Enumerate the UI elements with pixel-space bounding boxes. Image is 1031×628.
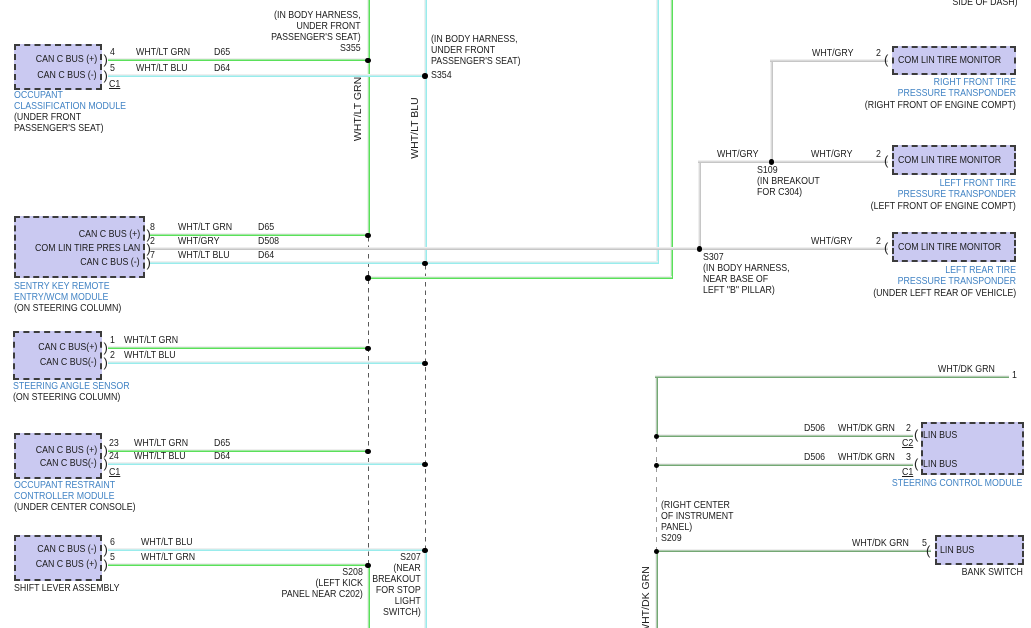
junction CAN+ bus / cross link xyxy=(365,275,371,281)
ORC wire 24 circuit D64 xyxy=(214,451,230,462)
junction LIN bus / SCM pin 3 xyxy=(654,463,660,469)
ORC pin label CAN C BUS(-) xyxy=(40,458,97,469)
SKREEM caption xyxy=(14,281,110,303)
SCM pin label LIN BUS (C2) xyxy=(923,430,957,441)
SKREEM pin 8 number xyxy=(150,222,155,233)
cut-off text SIDE OF DASH xyxy=(953,0,1018,8)
SKREEM wire 8 circuit D65 xyxy=(258,222,274,233)
BANK pin 5 number xyxy=(922,538,927,549)
splice S208 xyxy=(365,563,371,569)
LF wire label WHT/GRY left xyxy=(717,149,758,160)
RF pin label COM LIN TIRE MONITOR xyxy=(898,55,1001,66)
junction CAN+ bus / SKREEM xyxy=(365,233,371,239)
SAS connector symbol pin 2 xyxy=(104,356,108,369)
SAS wire 1 label WHT/LT GRN xyxy=(124,335,178,346)
splice S209 xyxy=(654,549,660,555)
SCM connector C1 label xyxy=(902,467,913,478)
module box left front COM LIN TIRE MONITOR xyxy=(892,145,1016,175)
OCM connector symbol pin 5 xyxy=(104,69,108,82)
top wire pin 1 number xyxy=(1012,370,1017,381)
wire CAN C (-) vertical bus WHT/LT BLU (top solid segment) xyxy=(424,0,427,265)
ORC wire 24 label WHT/LT BLU xyxy=(134,451,186,462)
RF pin 2 number xyxy=(876,48,881,59)
SKREEM wire 2 circuit D508 xyxy=(258,236,279,247)
SKREEM connector symbol pin 7 xyxy=(147,256,151,269)
ORC connector C1 label xyxy=(109,467,120,478)
wire left front transponder pin 2 WHT/GRY xyxy=(698,160,888,163)
SKREEM connector symbol pin 8 xyxy=(147,228,151,241)
LF pin 2 number xyxy=(876,149,881,160)
SCM pin 3 number xyxy=(906,452,911,463)
SCM connector symbol pin 3 xyxy=(914,457,918,470)
wire WHT/LT BLU vertical drop at right xyxy=(656,0,659,264)
OCM connector C1 label xyxy=(109,79,120,90)
RF wire label WHT/GRY xyxy=(812,48,853,59)
wire WHT/GRY vertical S307 to S109 corner xyxy=(698,160,701,250)
wire WHT/LT GRN vertical drop at right xyxy=(670,0,673,279)
wire SCM pin 3 WHT/DK GRN D506 xyxy=(655,463,913,466)
OCM pin 4 number xyxy=(110,47,115,58)
SAS pin 1 number xyxy=(110,335,115,346)
ORC wire 23 label WHT/LT GRN xyxy=(134,438,188,449)
SLA pin 5 number xyxy=(110,552,115,563)
SKREEM wire 7 label WHT/LT BLU xyxy=(178,250,230,261)
wire SAS pin 2 WHT/LT BLU xyxy=(108,361,426,364)
BANK connector symbol pin 5 xyxy=(926,544,930,557)
BANK caption xyxy=(962,567,1023,578)
BANK wire label WHT/DK GRN xyxy=(852,538,909,549)
SAS connector symbol pin 1 xyxy=(104,341,108,354)
RF caption xyxy=(898,77,1016,99)
wire SKREEM pin 7 WHT/LT BLU D64 xyxy=(150,261,658,264)
module box SENTRY KEY REMOTE ENTRY/WCM MODULE xyxy=(14,216,145,278)
SCM wire 3 circuit D506 xyxy=(804,452,825,463)
BANK pin label LIN BUS xyxy=(940,545,974,556)
splice label S307 xyxy=(703,252,790,296)
wire WHT/DK GRN vertical (bottom solid segment) xyxy=(655,551,658,628)
SLA caption xyxy=(14,583,120,594)
ORC connector symbol pin 24 xyxy=(104,457,108,470)
OCM pin label CAN C BUS (-) xyxy=(38,70,97,81)
LF pin label COM LIN TIRE MONITOR xyxy=(898,155,1001,166)
SLA pin 6 number xyxy=(110,537,115,548)
wire SKREEM pin 8 WHT/LT GRN D65 xyxy=(150,233,369,236)
SCM wire 2 label WHT/DK GRN xyxy=(838,423,895,434)
SAS caption xyxy=(13,381,130,392)
vertical wire label WHT/LT GRN xyxy=(352,77,364,141)
wire WHT/DK GRN bus dashed link segment xyxy=(656,437,657,551)
splice label S209 xyxy=(661,500,734,544)
junction CAN+ bus / SAS xyxy=(365,346,371,352)
SCM wire 2 circuit D506 xyxy=(804,423,825,434)
wire SLA pin 5 WHT/LT GRN xyxy=(108,563,369,566)
SKREEM pin label CAN C BUS (+) xyxy=(78,229,140,240)
vertical wire label WHT/DK GRN xyxy=(640,566,652,628)
wire WHT/DK GRN vertical (top solid segment) xyxy=(655,375,658,437)
ORC caption xyxy=(14,480,115,502)
module box right front COM LIN TIRE MONITOR xyxy=(892,46,1016,75)
LR pin label COM LIN TIRE MONITOR xyxy=(898,242,1001,253)
wire CAN C (-) bus bottom solid segment WHT/LT BLU xyxy=(424,550,427,628)
splice label S354 xyxy=(431,34,521,67)
OCM pin 5 number xyxy=(110,63,115,74)
wire CAN C (-) bus dashed link segment xyxy=(425,265,426,550)
wire WHT/GRY vertical S109 to right front corner xyxy=(770,59,773,163)
module box OCCUPANT CLASSIFICATION MODULE xyxy=(14,44,102,90)
SKREEM pin label COM LIN TIRE PRES LAN xyxy=(35,243,140,254)
LF caption xyxy=(898,178,1016,200)
wire CAN C (+) bus dashed link segment xyxy=(368,237,369,565)
module box OCCUPANT RESTRAINT CONTROLLER MODULE xyxy=(14,433,102,479)
splice S207 xyxy=(422,548,428,554)
SKREEM wire 8 label WHT/LT GRN xyxy=(178,222,232,233)
wire right front transponder pin 2 WHT/GRY xyxy=(770,59,888,62)
module box STEERING ANGLE SENSOR xyxy=(13,331,102,380)
ORC wire 23 circuit D65 xyxy=(214,438,230,449)
SAS pin label CAN C BUS(+) xyxy=(38,342,97,353)
wire SCM pin 2 WHT/DK GRN D506 xyxy=(655,434,913,437)
wire CAN C (+) bus bottom solid segment WHT/LT GRN xyxy=(367,565,370,628)
wire OCM pin 5 WHT/LT BLU D64 xyxy=(108,74,426,77)
vertical wire label WHT/LT BLU xyxy=(409,97,421,158)
wire CAN C (+) vertical bus WHT/LT GRN (top solid segment) xyxy=(367,0,370,237)
wire SAS pin 1 WHT/LT GRN xyxy=(108,346,369,349)
SCM connector C2 label xyxy=(902,438,913,449)
OCM pin label CAN C BUS (+) xyxy=(35,54,97,65)
splice label S355 xyxy=(271,10,361,54)
wire WHT/DK GRN top run to pin 1 xyxy=(655,375,1009,378)
SKREEM connector symbol pin 2 xyxy=(147,242,151,255)
splice S307 xyxy=(697,246,703,252)
splice S109 xyxy=(769,159,775,165)
junction CAN- bus / ORC xyxy=(422,462,428,468)
SLA pin label CAN C BUS (-) xyxy=(38,544,97,555)
SKREEM wire 2 label WHT/GRY xyxy=(178,236,219,247)
wire ORC pin 23 WHT/LT GRN D65 xyxy=(108,449,369,452)
wire SLA pin 6 WHT/LT BLU xyxy=(108,548,426,551)
SCM pin label LIN BUS (C1) xyxy=(923,459,957,470)
junction LIN bus / SCM pin 2 xyxy=(654,434,660,440)
ORC pin label CAN C BUS (+) xyxy=(35,445,97,456)
SCM wire 3 label WHT/DK GRN xyxy=(838,452,895,463)
junction CAN+ bus / ORC xyxy=(365,449,371,455)
junction CAN- bus / SKREEM xyxy=(422,261,428,267)
module box STEERING CONTROL MODULE xyxy=(921,422,1024,475)
junction CAN- bus / SAS xyxy=(422,361,428,367)
OCM wire 5 circuit D64 xyxy=(214,63,230,74)
splice label S109 xyxy=(757,165,820,198)
module box left rear COM LIN TIRE MONITOR xyxy=(892,232,1016,262)
top wire label WHT/DK GRN xyxy=(938,364,995,375)
SKREEM pin 7 number xyxy=(150,250,155,261)
RF connector symbol pin 2 xyxy=(884,53,888,66)
LR pin 2 number xyxy=(876,236,881,247)
splice label S207 xyxy=(372,552,421,618)
wire WHT/LT GRN cross link xyxy=(366,276,672,279)
LR connector symbol pin 2 xyxy=(884,241,888,254)
SKREEM pin 2 number xyxy=(150,236,155,247)
ORC pin 23 number xyxy=(109,438,119,449)
OCM connector symbol pin 4 xyxy=(104,53,108,66)
SAS pin 2 number xyxy=(110,350,115,361)
LF connector symbol pin 2 xyxy=(884,154,888,167)
SKREEM pin label CAN C BUS (-) xyxy=(81,257,140,268)
SLA connector symbol pin 6 xyxy=(104,543,108,556)
SCM caption xyxy=(891,478,1022,489)
SAS pin label CAN C BUS(-) xyxy=(40,357,97,368)
SLA connector symbol pin 5 xyxy=(104,558,108,571)
LR wire label WHT/GRY xyxy=(811,236,852,247)
SCM pin 2 number xyxy=(906,423,911,434)
splice label S208 xyxy=(282,567,363,600)
OCM caption xyxy=(14,90,126,112)
ORC pin 24 number xyxy=(109,451,119,462)
ORC connector symbol pin 23 xyxy=(104,444,108,457)
wire OCM pin 4 WHT/LT GRN D65 xyxy=(108,58,369,61)
module box BANK SWITCH xyxy=(935,535,1024,565)
SLA wire 5 label WHT/LT GRN xyxy=(141,552,195,563)
SKREEM wire 7 circuit D64 xyxy=(258,250,274,261)
splice S355 xyxy=(365,58,371,64)
wire bank switch pin 5 WHT/DK GRN xyxy=(655,549,931,552)
LR caption xyxy=(898,265,1016,287)
wire SKREEM pin 2 WHT/GRY D508 to S307 to left rear transponder xyxy=(150,247,888,250)
SCM connector symbol pin 2 xyxy=(914,428,918,441)
OCM wire 4 circuit D65 xyxy=(214,47,230,58)
SLA wire 6 label WHT/LT BLU xyxy=(141,537,193,548)
module box SHIFT LEVER ASSEMBLY xyxy=(14,535,102,581)
OCM wire 4 label WHT/LT GRN xyxy=(136,47,190,58)
OCM wire 5 label WHT/LT BLU xyxy=(136,63,188,74)
SLA pin label CAN C BUS (+) xyxy=(35,559,97,570)
splice S354 xyxy=(422,73,428,79)
SAS wire 2 label WHT/LT BLU xyxy=(124,350,176,361)
LF wire label WHT/GRY right xyxy=(811,149,852,160)
wire ORC pin 24 WHT/LT BLU D64 xyxy=(108,462,426,465)
